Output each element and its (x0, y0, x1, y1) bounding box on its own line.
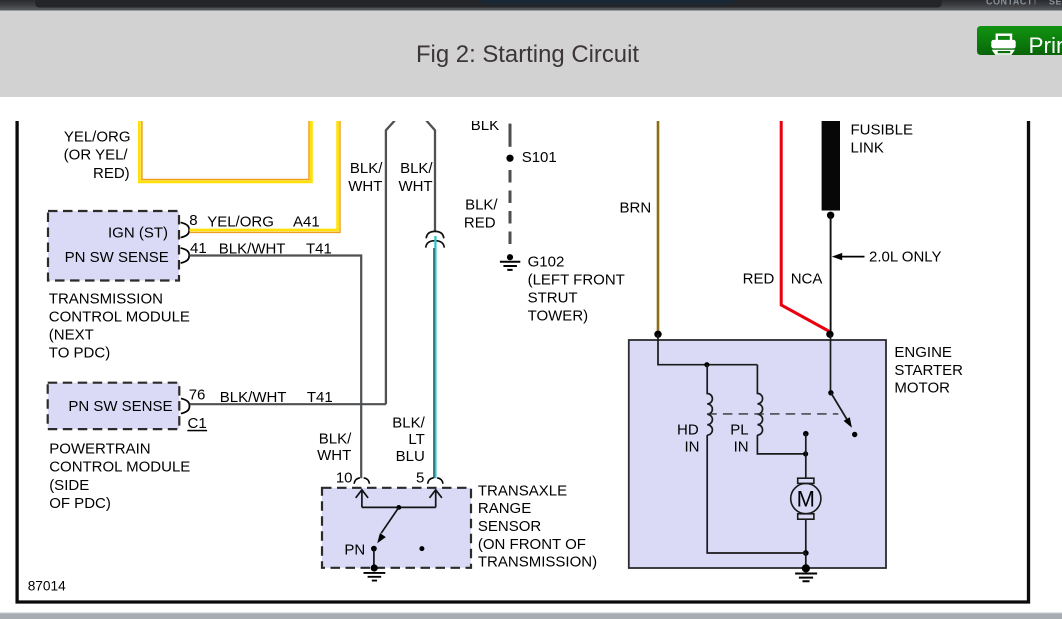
ground starter (802, 564, 810, 572)
svg-text:RANGE: RANGE (478, 500, 531, 517)
engine starter motor box (629, 340, 886, 568)
wire PN to ground (373, 549, 375, 567)
svg-text:41: 41 (190, 240, 207, 257)
sensor internal bar (362, 506, 436, 508)
node second contact (419, 546, 424, 551)
svg-text:CONTACT: CONTACT (986, 0, 1033, 6)
gray page header (0, 11, 1062, 98)
wire terminal to motor (805, 434, 807, 479)
svg-text:BLK/: BLK/ (465, 196, 498, 213)
node PN contact (371, 546, 377, 552)
svg-text:BLU: BLU (396, 448, 425, 465)
svg-text:HD: HD (677, 421, 699, 438)
ground sensor (371, 564, 378, 571)
dashed linkage line (707, 413, 838, 415)
switch feed wire (830, 334, 832, 393)
navbar black tab (35, 0, 942, 8)
svg-text:PN: PN (344, 542, 365, 559)
pin socket 8 (181, 222, 190, 237)
wire yellow pin8 (189, 119, 337, 230)
switch pivot node (828, 390, 833, 395)
svg-text:IGN (ST): IGN (ST) (108, 225, 168, 242)
svg-text:PN SW SENSE: PN SW SENSE (68, 398, 172, 415)
junction node (396, 505, 401, 510)
svg-text:76: 76 (189, 386, 206, 403)
switch blade (831, 393, 848, 421)
2.0L ONLY arrow (832, 253, 842, 260)
node below fusible link (827, 212, 834, 219)
collar socket pin 10 (354, 478, 360, 484)
node feed at box (826, 331, 833, 338)
node motor bottom (803, 550, 809, 556)
node BRN at box (654, 331, 661, 338)
wire RED (781, 119, 829, 332)
svg-text:RED): RED) (93, 165, 130, 182)
svg-text:CONTROL MODULE: CONTROL MODULE (49, 308, 190, 325)
svg-text:(SIDE: (SIDE (49, 477, 89, 494)
transmission control module box (48, 211, 179, 281)
svg-text:BLK/: BLK/ (400, 160, 433, 177)
pin socket 76 (181, 398, 190, 413)
svg-text:BLK: BLK (471, 117, 499, 134)
svg-text:STARTER: STARTER (894, 362, 963, 379)
svg-text:NCA: NCA (791, 270, 823, 287)
wire PL coil to motor node (757, 435, 805, 454)
browser navbar background (0, 0, 1062, 11)
svg-text:IN: IN (685, 438, 700, 455)
svg-text:YEL/ORG: YEL/ORG (64, 128, 131, 145)
svg-text:LINK: LINK (851, 140, 884, 157)
svg-text:Fig 2: Starting Circuit: Fig 2: Starting Circuit (416, 41, 639, 68)
node motor top terminal (803, 431, 809, 437)
svg-text:5: 5 (416, 469, 424, 486)
wire HD coil return (707, 435, 806, 553)
svg-text:WHT: WHT (398, 178, 432, 195)
wire gray left collar (top) down to pin76 line (386, 121, 395, 405)
svg-text:STRUT: STRUT (528, 290, 578, 307)
svg-text:LT: LT (408, 431, 424, 448)
svg-text:ENGINE: ENGINE (894, 344, 952, 361)
wire yellow loop (139, 119, 311, 182)
svg-text:WHT: WHT (348, 178, 382, 195)
sensor pin5 arrow (430, 490, 442, 508)
wire gray TCM pin41 to sensor pin10 (189, 256, 361, 479)
svg-text:TRANSAXLE: TRANSAXLE (478, 482, 567, 499)
svg-text:(ON FRONT OF: (ON FRONT OF (478, 536, 586, 553)
svg-text:YEL/ORG: YEL/ORG (207, 214, 274, 231)
fusible link (822, 119, 840, 211)
node coil junction (704, 362, 709, 367)
svg-text:MOTOR: MOTOR (894, 380, 950, 397)
diagram frame border (17, 120, 1028, 602)
node PL to motor (803, 451, 808, 456)
wire dashed BLK/RED (509, 170, 512, 247)
wiper arrow to PN (381, 507, 399, 533)
svg-text:2.0L ONLY: 2.0L ONLY (869, 249, 942, 266)
svg-text:POWERTRAIN: POWERTRAIN (49, 441, 150, 458)
svg-text:CONTROL MODULE: CONTROL MODULE (49, 459, 190, 476)
svg-text:SETTI: SETTI (1049, 0, 1062, 6)
svg-text:TOWER): TOWER) (528, 308, 589, 325)
svg-text:10: 10 (336, 469, 353, 486)
wire lt-blue down to sensor pin5 (434, 236, 436, 478)
wire BRN (657, 119, 660, 331)
svg-text:RED: RED (464, 214, 496, 231)
inline connector symbol (two arcs) (426, 231, 444, 238)
svg-text:(OR YEL/: (OR YEL/ (64, 147, 129, 164)
svg-text:A41: A41 (293, 214, 320, 231)
printer icon (991, 35, 1015, 55)
svg-text:RED: RED (743, 270, 775, 287)
svg-text:PL: PL (730, 421, 748, 438)
node S101 (506, 155, 513, 162)
svg-text:SENSOR: SENSOR (478, 518, 542, 535)
wire gray PCM pin76 (190, 403, 386, 405)
svg-text:TRANSMISSION: TRANSMISSION (49, 290, 163, 307)
svg-text:IN: IN (734, 438, 749, 455)
navbar separator (1035, 0, 1036, 5)
svg-text:BRN: BRN (620, 199, 652, 216)
wire gray right collar (top) (426, 121, 435, 233)
wire dashed to S101 (509, 124, 512, 147)
svg-text:8: 8 (189, 212, 197, 229)
pin socket 41 (181, 248, 190, 263)
svg-text:OF PDC): OF PDC) (49, 495, 111, 512)
svg-text:S101: S101 (522, 149, 557, 166)
svg-text:Print: Print (1029, 33, 1062, 58)
svg-text:BLK/: BLK/ (319, 430, 352, 447)
collar socket pin 5 (428, 478, 434, 484)
svg-text:TO PDC): TO PDC) (49, 345, 110, 362)
switch contact node (852, 432, 857, 437)
svg-text:BLK/: BLK/ (350, 160, 383, 177)
wire motor to bottom junction (805, 519, 807, 553)
transaxle range sensor box (322, 488, 471, 568)
svg-text:TRANSMISSION): TRANSMISSION) (478, 554, 597, 571)
svg-text:FUSIBLE: FUSIBLE (851, 122, 914, 139)
wire black tracer of lt-blue (433, 248, 435, 478)
svg-text:(NEXT: (NEXT (49, 326, 94, 343)
svg-text:PN SW SENSE: PN SW SENSE (65, 249, 169, 266)
wire orange tracer pin8 (189, 119, 340, 232)
svg-text:(LEFT FRONT: (LEFT FRONT (528, 272, 625, 289)
wire black feed (830, 215, 832, 334)
wire orange tracer of loop (142, 119, 309, 180)
wire brn entry to coils (658, 334, 757, 364)
svg-text:C1: C1 (188, 415, 207, 432)
bottom gray bar (0, 613, 1062, 619)
svg-text:G102: G102 (528, 254, 565, 271)
ground G102 (507, 254, 513, 260)
navbar navy tab (481, 0, 734, 5)
motor M1 (798, 478, 814, 483)
svg-text:BLK/: BLK/ (392, 414, 425, 431)
powertrain control module box (48, 383, 180, 429)
coil PL IN (757, 365, 762, 435)
svg-text:WHT: WHT (317, 447, 351, 464)
print button (977, 26, 1062, 55)
wire to case ground (805, 553, 807, 566)
svg-text:87014: 87014 (28, 579, 66, 594)
svg-text:M: M (797, 487, 815, 512)
coil HD IN (707, 365, 712, 435)
sensor pin10 arrow (356, 490, 368, 508)
